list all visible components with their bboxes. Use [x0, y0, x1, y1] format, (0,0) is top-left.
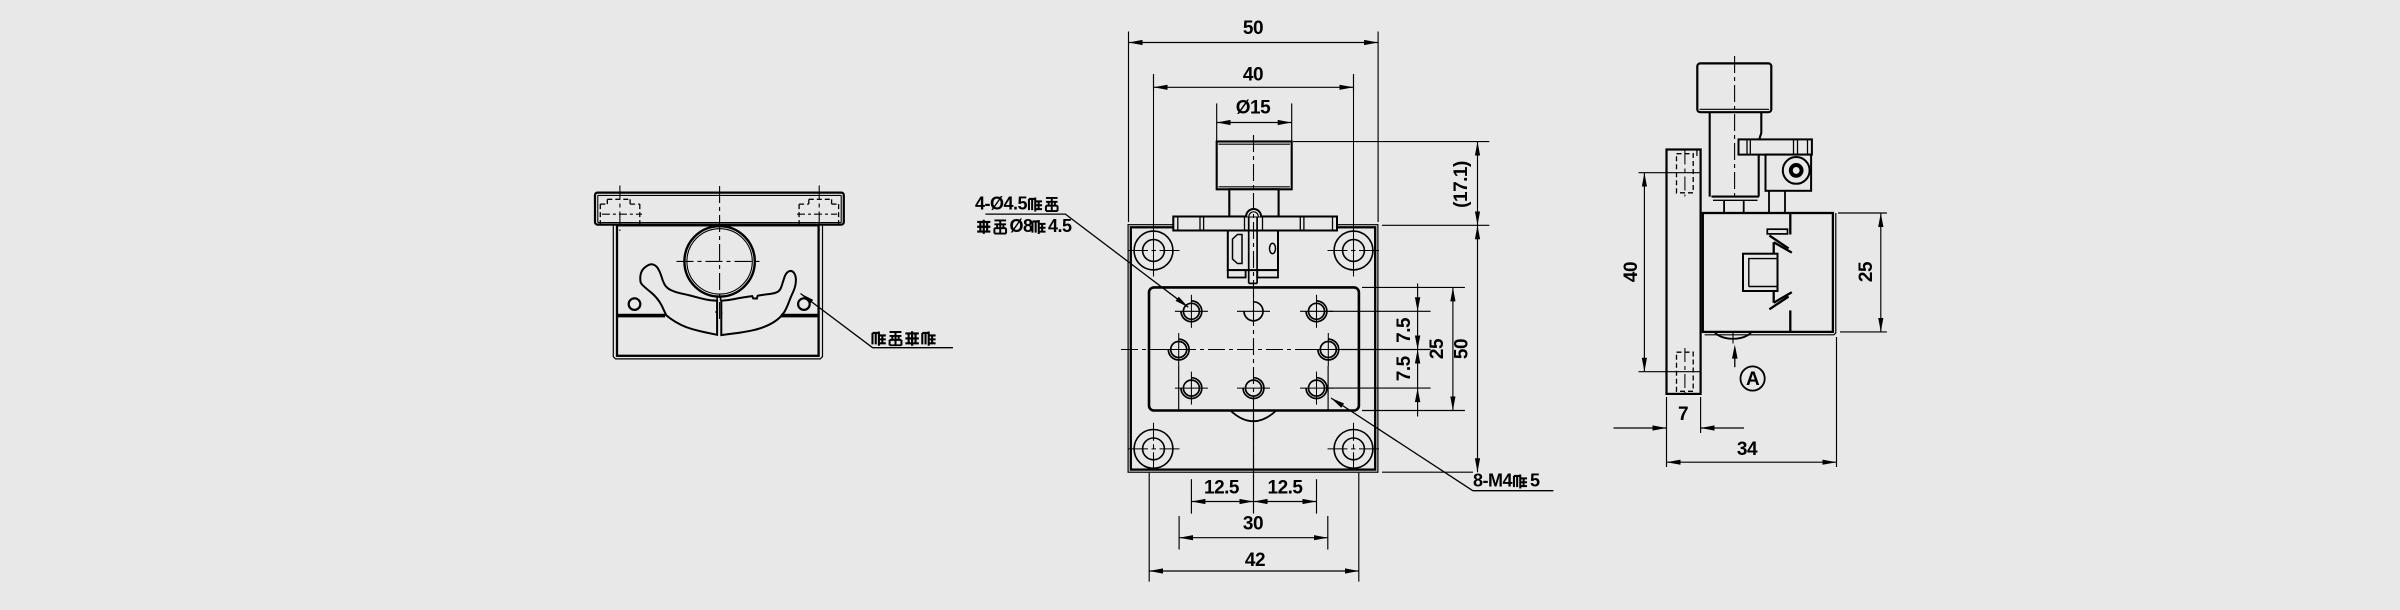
svg-text:50: 50 — [1452, 339, 1473, 359]
svg-text:12.5: 12.5 — [1268, 478, 1304, 499]
svg-text:Ø8: Ø8 — [1010, 216, 1034, 236]
corner hole crosshairs — [1128, 251, 1379, 472]
svg-text:A: A — [1746, 369, 1760, 390]
dimension 25 right side — [1362, 287, 1465, 410]
dimension 25 (side view) — [1838, 213, 1887, 332]
dimension 50 top — [1129, 32, 1379, 223]
grid hole r2c3 — [1318, 339, 1339, 360]
svg-text:25: 25 — [1427, 338, 1448, 359]
view arrow A — [1732, 345, 1765, 391]
slit lines below circle — [715, 296, 722, 313]
hidden counterbore hole right (dashed) — [799, 199, 839, 225]
svg-text:50: 50 — [1243, 18, 1263, 39]
svg-text:40: 40 — [1621, 262, 1642, 282]
knob axis centerline — [1734, 56, 1736, 198]
svg-text:7: 7 — [1678, 404, 1688, 425]
clamp pad square — [1743, 254, 1778, 291]
flexure jaw zigzag bottom — [1769, 291, 1791, 332]
dimension Ø15 — [1217, 103, 1292, 140]
big circle (knob end-on) — [684, 226, 754, 296]
leader 8-M4 deep5 — [1331, 398, 1553, 491]
grid hole r3c1 — [1181, 378, 1202, 399]
ext+crosshair 40 left (through top-left hole) — [1153, 74, 1155, 277]
moving platform — [1149, 287, 1359, 410]
knob (middle view) — [1217, 142, 1292, 190]
dimension 30 bottom — [1179, 366, 1328, 550]
corner hole bottom-right — [1334, 430, 1373, 469]
plate hidden hole top (dashed) — [1677, 154, 1694, 193]
corner hole top-right — [1334, 231, 1373, 270]
right clamp wing — [721, 271, 796, 335]
label 4-Ø4.5通孔 — [975, 194, 1058, 214]
platform bottom notch — [1230, 411, 1276, 422]
bar block with washer — [1766, 155, 1812, 191]
optic dome at bottom — [1715, 332, 1752, 344]
carriage block — [1228, 231, 1278, 271]
clamp table thick line left segment — [617, 314, 665, 318]
svg-text:30: 30 — [1243, 514, 1263, 535]
top plate outline — [595, 193, 844, 225]
grid hole r2c1 — [1168, 339, 1189, 360]
dimension 50 right side — [1382, 225, 1489, 472]
leader 4-Ø4.5 counterbore — [985, 214, 1188, 307]
clamp bar (side view) — [1739, 139, 1812, 154]
svg-text:7.5: 7.5 — [1394, 317, 1415, 343]
grid hole r3c3 — [1306, 378, 1327, 399]
left clamp wing — [640, 264, 717, 335]
dimension 42 bottom — [1149, 473, 1359, 582]
circle centerline vertical — [719, 186, 721, 319]
screw dome — [1246, 209, 1261, 216]
svg-text:12.5: 12.5 — [1204, 478, 1240, 499]
svg-text:Ø15: Ø15 — [1236, 98, 1271, 119]
svg-text:42: 42 — [1245, 550, 1265, 571]
dimension 34 (side view) — [1667, 337, 1837, 467]
plate hidden hole bottom (dashed) — [1677, 352, 1694, 391]
locking screw hole left — [629, 298, 641, 310]
svg-text:7.5: 7.5 — [1394, 355, 1415, 381]
knob shaft (middle view) — [1229, 189, 1278, 216]
label 沉孔Ø8深4.5 — [977, 216, 1072, 236]
label 锁紧旋钮 (drawn glyphs) — [872, 331, 935, 346]
grid hole crosshair ticks — [1162, 293, 1345, 404]
ext+crosshair 40 right (through top-right hole) — [1353, 74, 1355, 277]
dimension (17.1) right — [1293, 142, 1489, 226]
dimensions 12.5 / 12.5 bottom — [1191, 412, 1316, 514]
shaft (side view) — [1710, 112, 1762, 200]
plate hole centermarks — [1639, 151, 1700, 395]
grid hole r3c2 — [1243, 378, 1264, 399]
svg-text:4.5: 4.5 — [1048, 216, 1072, 236]
centerline plate hole left — [619, 186, 621, 232]
grid hole r1c2 (3/4 arc) — [1244, 302, 1263, 321]
svg-text:25: 25 — [1856, 261, 1877, 282]
centerline plate hole right — [818, 186, 820, 232]
clamp table thick line right segment — [781, 314, 819, 318]
dimension 40 (side view) — [1643, 173, 1645, 372]
circle centerline horizontal — [677, 260, 763, 262]
dimension 40 top — [1154, 74, 1354, 91]
corner hole top-left — [1134, 231, 1173, 270]
carriage feet — [1228, 270, 1278, 277]
grid hole r1c1 — [1181, 301, 1202, 322]
screw shaft lines — [1249, 217, 1257, 284]
dimensions 7.5 / 7.5 right side — [1329, 284, 1431, 417]
svg-text:(17.1): (17.1) — [1451, 161, 1472, 208]
svg-text:34: 34 — [1737, 439, 1758, 460]
grid hole r1c3 — [1306, 301, 1327, 322]
side plate — [1667, 150, 1701, 394]
horizontal centerline — [1121, 349, 1341, 351]
label 8-M4深5 — [1473, 471, 1540, 491]
vertical centerline — [1253, 135, 1255, 480]
side body — [1703, 213, 1836, 335]
svg-text:8-M4: 8-M4 — [1473, 471, 1512, 491]
body outline — [1128, 225, 1378, 473]
svg-text:40: 40 — [1243, 65, 1263, 86]
knob (side view) — [1697, 63, 1771, 112]
locking screw hole right — [798, 298, 810, 310]
flexure jaw small bar — [1767, 229, 1787, 234]
hidden counterbore hole left (dashed) — [600, 199, 640, 225]
svg-text:4-Ø4.5: 4-Ø4.5 — [975, 194, 1028, 214]
corner hole bottom-left — [1134, 430, 1173, 469]
svg-text:5: 5 — [1530, 471, 1540, 491]
flexure jaw zigzag top — [1769, 213, 1791, 254]
dimension 7 (side view) — [1614, 397, 1745, 467]
shaft legs — [1724, 191, 1785, 213]
leader lock knob — [801, 294, 954, 348]
main body outline — [613, 225, 822, 359]
clamp bar (middle view) — [1173, 217, 1337, 231]
